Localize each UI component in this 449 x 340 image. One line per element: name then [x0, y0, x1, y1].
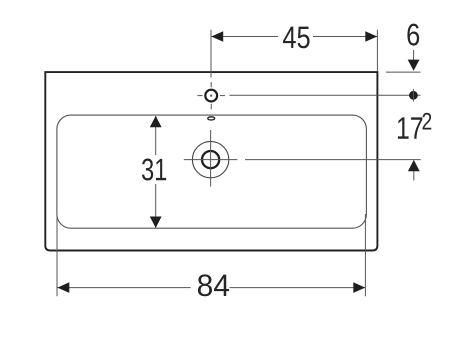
dimension 31: label	[142, 159, 166, 181]
drain centerline to right dimension arrow	[245, 159, 421, 161]
reference dot vertical tick	[412, 89, 414, 102]
tap hole circle	[205, 90, 217, 102]
dimension 45: line right segment	[313, 36, 377, 38]
dimension 84: extension line right	[364, 214, 366, 296]
dimension 6: label	[407, 24, 419, 46]
drain outer circle	[192, 141, 228, 177]
dimension 45: label	[283, 27, 310, 49]
reference dot on tap centerline	[409, 91, 418, 100]
dimension 31: line upper segment	[155, 116, 157, 155]
dimension 31: down arrowhead	[150, 217, 162, 228]
tap hole crosshair top tick	[210, 82, 212, 87]
dimension 84: label	[198, 274, 229, 296]
tap hole center mark	[210, 95, 212, 97]
dimension 45: right arrowhead	[365, 31, 377, 42]
tap hole crosshair bottom tick	[210, 104, 212, 109]
basin inner bowl outline	[57, 115, 367, 228]
drain inner circle	[202, 151, 219, 168]
dimension 31: up arrowhead	[150, 116, 162, 127]
dimension 6: arrow tail	[413, 50, 415, 60]
dimension 45: extension line left (tap axis)	[210, 30, 212, 78]
tap hole crosshair right tick	[220, 95, 225, 97]
dimension 45: extension line right (basin right edge)	[376, 30, 378, 72]
dimension 84: right arrowhead	[353, 282, 365, 293]
dimension 45: line left segment	[212, 36, 278, 38]
dimension 31: line lower segment	[155, 184, 157, 228]
overflow slot ellipse	[208, 117, 215, 120]
washbasin outer outline	[45, 72, 377, 250]
dimension 17 squared: arrow tail	[413, 171, 415, 180]
dimension 17 squared: superscript 2	[423, 113, 432, 130]
dimension 17 squared: up arrowhead	[408, 160, 420, 171]
tap hole centerline to right reference dot	[229, 94, 420, 96]
dimension 45: left arrowhead	[211, 31, 223, 42]
dimension 84: extension line left	[56, 214, 58, 296]
dimension 17 squared: label	[398, 117, 422, 138]
drain crosshair horizontal	[184, 159, 238, 161]
dimension 84: line left segment	[57, 287, 190, 289]
dimension 6: top edge extension segment	[386, 71, 421, 73]
dimension 84: left arrowhead	[57, 282, 69, 293]
dimension 84: line right segment	[230, 287, 366, 289]
drain crosshair vertical	[210, 130, 212, 187]
dimension 6: down arrowhead	[408, 60, 420, 71]
tap hole crosshair left tick	[197, 95, 202, 97]
